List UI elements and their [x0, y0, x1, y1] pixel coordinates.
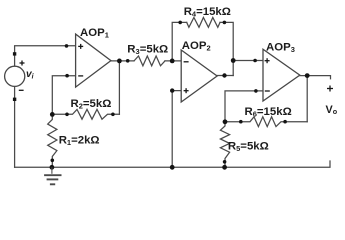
op-amp AOP3 (triangle) [263, 49, 300, 101]
node: ground rail junction under R1 [50, 165, 55, 170]
svg-text:AOP3: AOP3 [266, 41, 295, 54]
node: AOP3 + input lead dot [253, 59, 257, 63]
voltage source vi (circle) [5, 66, 25, 86]
wire: node to AOP3 non-inverting input [233, 60, 263, 62]
svg-text:R1=2kΩ: R1=2kΩ [59, 135, 100, 148]
node: R4 left lead dot [178, 21, 182, 25]
wire: bottom ground rail with right upturn [15, 161, 330, 167]
node: source bottom terminal (square) [13, 98, 16, 101]
node: rail junction under AOP2 [170, 165, 175, 170]
node: AOP3 - input lead dot [254, 89, 258, 93]
wire: AOP1 inverting input stub + left vertical down to R1/R2 node [52, 76, 75, 115]
node: R6 right lead dot [283, 120, 287, 124]
wire: source bottom lead down to rail [14, 87, 16, 168]
svg-text:R2=5kΩ: R2=5kΩ [71, 98, 112, 111]
node: AOP1 + input lead dot [65, 44, 69, 48]
node: R1 bottom lead dot [51, 159, 55, 163]
node: R1/R2/- junction [50, 112, 55, 117]
node: R6 left lead dot [239, 120, 243, 124]
svg-text:R4=15kΩ: R4=15kΩ [184, 6, 231, 19]
node: rail junction under R5 [222, 165, 227, 170]
wire: R4 left vertical [172, 22, 187, 61]
AOP2 minus mark [184, 61, 189, 63]
resistor R4 (15k, feedback over AOP2) [187, 18, 220, 28]
wire: AOP2 output [217, 75, 233, 77]
node: R5/R6/AOP3- junction [223, 119, 228, 124]
node: AOP3 output junction [305, 73, 310, 78]
node: R3/R4/AOP2- junction [170, 59, 175, 64]
AOP1 plus mark [78, 45, 83, 47]
output plus mark [327, 88, 333, 90]
svg-text:R5=5kΩ: R5=5kΩ [228, 141, 269, 154]
resistor R5 (5k, vertical to ground rail) [220, 122, 229, 168]
node: R5 bottom lead dot [223, 160, 227, 164]
source plus mark [20, 62, 25, 64]
node: R2 right lead dot [111, 113, 115, 117]
wire: R3 to AOP2 inverting input [165, 60, 181, 62]
node: AOP1 output lead dot [126, 59, 130, 63]
wire: R6 right vertical up to AOP3 output [306, 76, 308, 122]
svg-text:AOP1: AOP1 [80, 27, 109, 40]
svg-text:R3=5kΩ: R3=5kΩ [127, 43, 168, 56]
op-amp AOP2 (triangle) [181, 50, 217, 102]
node: R2 left lead dot [65, 113, 69, 117]
AOP2 plus mark [184, 90, 189, 92]
wire: R4 right vertical down to AOP2 output [220, 22, 233, 75]
resistor R1 (2k, vertical) [48, 114, 57, 167]
node: R4 right lead dot [223, 21, 227, 25]
svg-text:Vo: Vo [326, 104, 338, 116]
svg-text:AOP2: AOP2 [182, 40, 211, 53]
resistor R2 (5k, horizontal feedback) [52, 109, 119, 119]
node: AOP2 output lead dot [222, 73, 226, 77]
node: AOP2 + stub dot [170, 88, 174, 92]
node: source top terminal (square) [13, 52, 16, 55]
wire: source top lead + top-left horizontal to AOP1 + input [15, 46, 76, 67]
svg-text:R6=15kΩ: R6=15kΩ [245, 106, 292, 119]
resistor R6 (15k, feedback over AOP3) [225, 117, 307, 127]
resistor R3 (5k, series) [134, 56, 165, 66]
wire: AOP3 inverting input left + corner down to R5/R6 node [225, 91, 263, 122]
source minus mark [19, 89, 24, 91]
svg-text:vi: vi [26, 69, 35, 80]
node: AOP1 - input lead dot [65, 74, 69, 78]
node: AOP1 output junction [117, 59, 122, 64]
AOP3 plus mark [265, 60, 270, 62]
op-amp AOP1 (triangle) [76, 34, 111, 87]
AOP3 minus mark [265, 90, 270, 92]
ground [44, 167, 61, 184]
wire: AOP3 output to terminal with downtick [300, 76, 331, 79]
wire: AOP2 non-inverting stub + vertical down to rail [172, 91, 181, 168]
AOP1 minus mark [78, 75, 83, 77]
node: R4/AOP3+ junction [231, 58, 236, 63]
wire: AOP1 output to R3 [111, 60, 134, 62]
wire: R2 right vertical up to AOP1 output node [118, 61, 120, 114]
